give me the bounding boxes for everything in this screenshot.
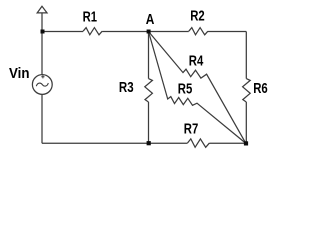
wire right side lower [245,102,247,143]
node A junction [147,30,151,34]
wire arrow stem down to junction [41,13,43,32]
resistor R6 [243,79,251,102]
resistor R4 with leads (diagonal) [149,32,246,144]
svg-text:Vin: Vin [9,65,30,82]
svg-text:R6: R6 [253,80,268,97]
svg-text:R3: R3 [119,79,134,96]
voltage source Vin (AC circle) [32,75,52,95]
svg-text:R5: R5 [178,81,193,98]
svg-text:R2: R2 [190,8,205,25]
wire right side upper [245,32,247,79]
wire node A to R2 [149,31,189,33]
svg-text:A: A [146,11,155,28]
wire source bottom to bottom-left corner [41,94,43,143]
arrow (net pointer, top-left) [37,6,47,13]
wire junction down to source top [41,32,43,75]
wire R2 to top-right corner [208,31,246,33]
resistor R1 [83,28,102,35]
junction at arrow/Vin tap [41,30,45,34]
wire R3 to bottom wire [148,102,150,143]
junction bottom-right [244,141,248,145]
wire bottom-left segment [42,142,187,144]
wire top-left segment [42,31,83,33]
junction R3 bottom [147,141,151,145]
wire R1 to node A [102,31,148,33]
sine wave inside source [36,83,48,86]
resistor R3 [145,79,153,102]
svg-text:R7: R7 [184,121,199,138]
resistor R7 [187,139,209,147]
wire R7 to bottom-right corner [209,142,246,144]
resistor R5 with leads (diagonal) [149,32,246,144]
wire node A down to R3 [148,32,150,79]
resistor R2 [189,28,208,35]
svg-text:R4: R4 [189,52,204,69]
svg-text:R1: R1 [83,8,97,25]
plus mark inside source [41,75,44,78]
